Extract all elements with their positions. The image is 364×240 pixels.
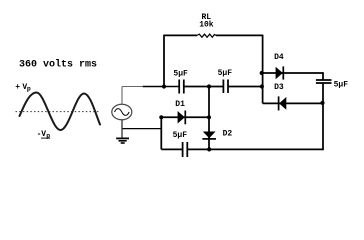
ground [116,138,129,143]
wire: source top horizontal [122,86,143,88]
node: D2 bottom junction [207,147,211,151]
capacitor C2 plates [223,80,228,94]
svg-text:5µF: 5µF [173,70,188,79]
wire: source bottom horizontal to circuit [122,128,161,130]
svg-text:10k: 10k [199,20,214,29]
capacitor C1 plates [179,80,184,94]
svg-text:5µF: 5µF [173,131,188,140]
svg-text:360 volts rms: 360 volts rms [19,59,97,71]
wire: D4 horizontal wire [262,72,323,74]
wire: right vertical below C5 to bottom rail [322,83,324,150]
svg-text:D2: D2 [223,129,233,138]
diode D4 [276,66,284,79]
wire: right vertical from top rail down to D3 corner [262,35,264,104]
wire: middle rail segment source-junction to C1 [143,86,180,88]
svg-text:D1: D1 [175,100,185,109]
source loop wires (lighter) [122,87,143,138]
svg-text:+: + [15,83,20,92]
wire: vertical through D2 from middle rail to bottom rail [208,87,210,150]
wire: bottom rail right of C3 [187,148,323,150]
wire: source top vertical [121,87,123,105]
AC source V1 [112,104,132,120]
svg-text:p: p [27,85,31,92]
wire: D1 horizontal wire [161,116,209,118]
node: D1 wire right junction [207,115,211,119]
wire: D3 horizontal wire [263,102,323,104]
junction dots [159,71,324,152]
capacitor C3 plates [183,142,188,157]
diode D1 [178,111,186,125]
node +Vp label [15,83,31,93]
wire: top rail left segment (to resistor) [164,34,197,36]
diode D2 [202,132,216,139]
sine waveform graphic [20,93,101,131]
node: D4 wire left junction [260,71,264,75]
wire: middle rail C2 to right vertical [228,86,263,88]
svg-text:D3: D3 [274,83,284,92]
wire: bottom rail left of C3 [161,148,182,150]
waveform zero axis (dotted) [16,111,100,113]
node: D1 wire left junction [159,115,163,119]
capacitor C5 plates (right) [316,80,332,83]
node -Vp label [37,130,51,140]
node: middle rail to D2 branch [207,84,211,88]
wire: source bottom vertical to ground [121,120,123,138]
wire: left lower vertical [160,117,162,149]
diode D3 (pointing left) [279,96,287,110]
wire: main circuit wiring group [122,34,332,157]
resistor RL zigzag [197,34,216,37]
node: middle rail right end [260,84,264,88]
wire: top rail right segment [216,34,263,36]
svg-text:5µF: 5µF [218,69,233,78]
wire: right vertical top (D4 corner to C5) [322,72,324,80]
svg-text:D4: D4 [274,53,284,62]
node: top-rail/middle-rail junction [162,84,166,88]
node: D3 wire right junction [320,101,324,105]
wire: middle rail C1 to C2 [184,86,223,88]
wire: left vertical from top rail to middle rail [163,35,165,87]
svg-text:5µF: 5µF [334,81,349,90]
